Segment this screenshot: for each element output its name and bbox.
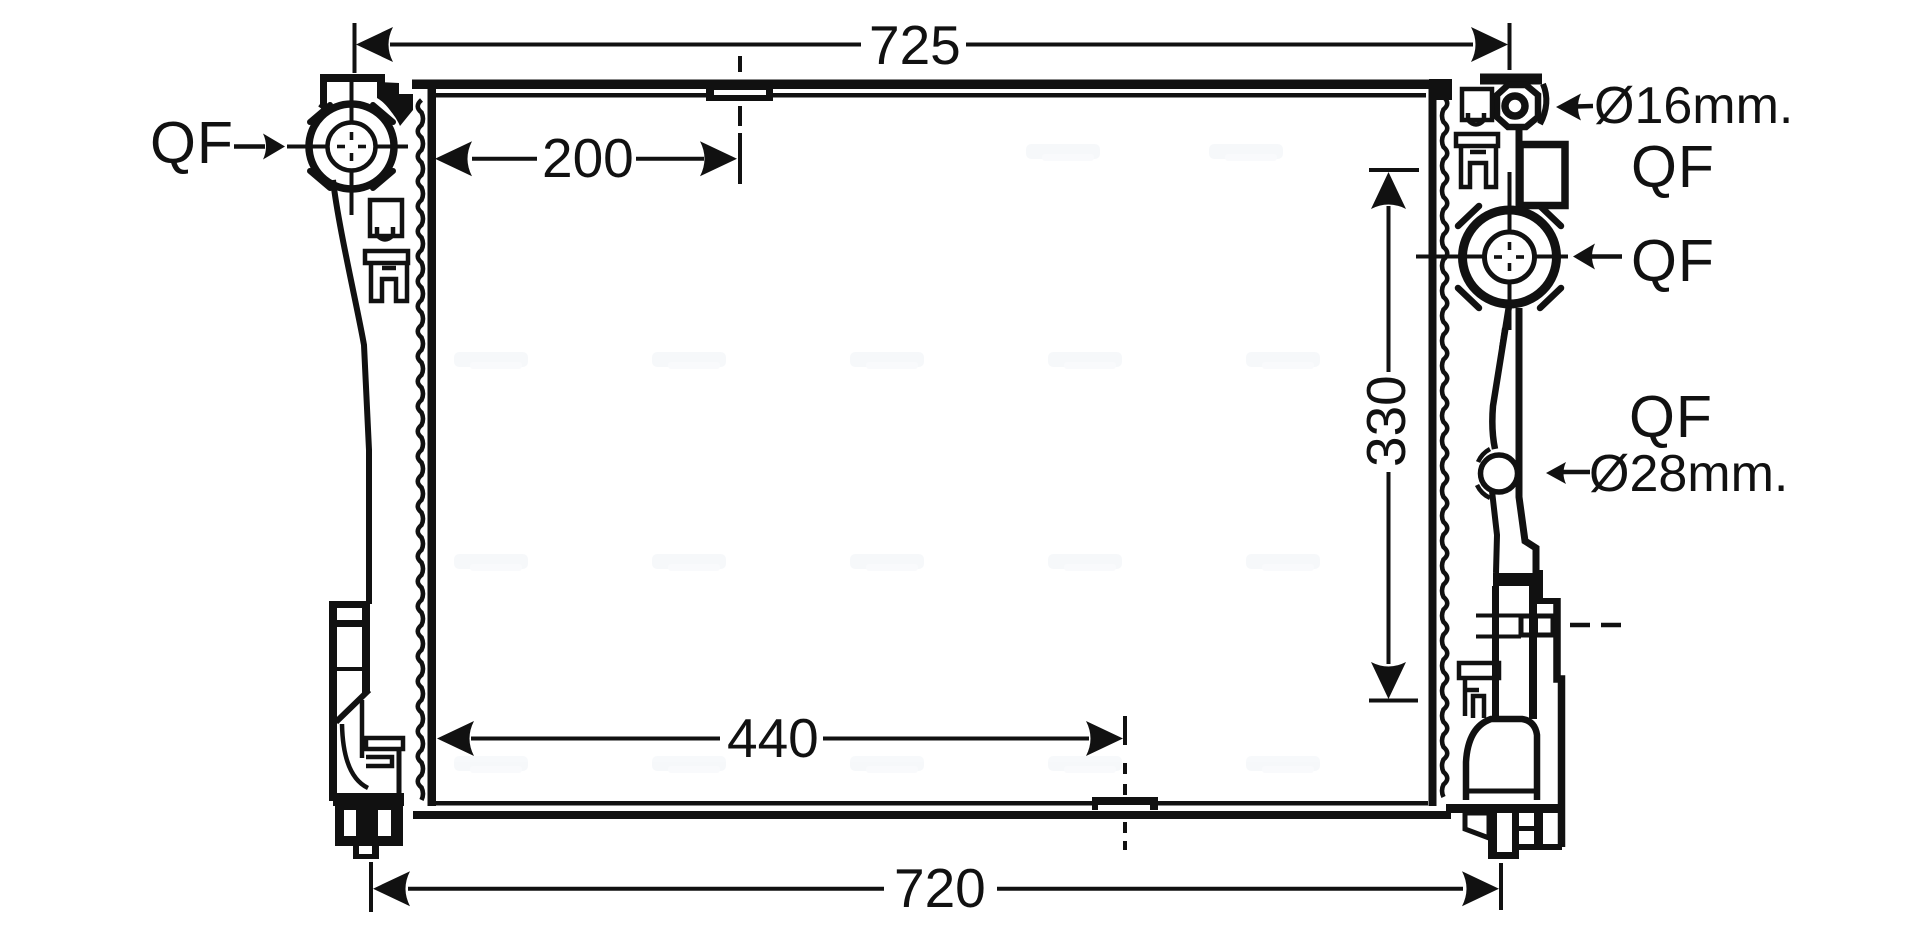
right feet	[1465, 813, 1562, 859]
Ø28 arrow	[1560, 470, 1590, 475]
right pin bracket (bar)	[1456, 134, 1498, 146]
left port chamfer marks	[310, 105, 393, 188]
dashed centerline right of clip	[1570, 623, 1626, 628]
right port center dash cross	[1494, 242, 1524, 271]
svg-text:QF: QF	[1631, 134, 1715, 200]
core bottom edge (thin inner line)	[433, 801, 1428, 806]
svg-text:720: 720	[894, 857, 986, 919]
left feet (slotted block)	[335, 806, 403, 859]
core bottom edge (thick line)	[413, 811, 1451, 819]
right pin bracket (upper box with notch)	[1462, 89, 1492, 125]
right tank neck (diagonal left line)	[1492, 306, 1509, 449]
left foot bracket inner curve	[342, 724, 368, 788]
right tank top bar	[1480, 74, 1542, 85]
right pin bracket (legs)	[1461, 146, 1496, 187]
QF right arrow	[1592, 254, 1622, 259]
svg-text:725: 725	[869, 14, 961, 76]
top mounting tab on top edge	[706, 88, 773, 101]
dimension 720 line	[371, 862, 1501, 912]
left pin bracket (bar)	[365, 251, 408, 263]
left tank corner kink	[320, 104, 331, 112]
right port crosshair	[1416, 172, 1568, 330]
left foot bracket left edge	[329, 601, 337, 801]
right tank top corner block	[1429, 79, 1452, 100]
svg-text:Ø16mm.: Ø16mm.	[1594, 77, 1793, 135]
clip box	[1521, 616, 1553, 635]
left inlet port flange (octagon ring)	[309, 104, 394, 189]
right bolt ring Ø16	[1505, 96, 1525, 116]
svg-text:200: 200	[542, 127, 634, 189]
dimension 440 extension line	[1123, 716, 1127, 850]
dimension 200 extension line (dashed)	[738, 56, 742, 184]
left tank wall (sloped)	[333, 180, 369, 604]
svg-text:330: 330	[1355, 375, 1417, 467]
dimension 725 line	[355, 23, 1510, 73]
dome inner line	[1469, 789, 1536, 794]
left port crosshair	[287, 75, 408, 215]
left tank top corner bar	[320, 74, 385, 105]
white separation arc	[364, 98, 400, 134]
svg-text:QF: QF	[1631, 228, 1715, 294]
dimension 330 line	[1369, 170, 1419, 701]
left foot bracket diagonal brace	[336, 690, 369, 722]
left pin bracket (upper box with notch)	[370, 200, 402, 240]
dimension 200 line	[472, 157, 704, 161]
right tank serrated edge	[1442, 97, 1447, 797]
right tank neck (right line)	[1519, 308, 1536, 578]
left foot bracket column right edge	[362, 601, 370, 693]
svg-text:QF: QF	[1629, 384, 1713, 450]
right square connector	[1520, 145, 1565, 206]
core left edge line	[428, 85, 437, 806]
Ø16 arrow	[1576, 104, 1593, 109]
left tank serrated edge	[418, 100, 423, 800]
drain port arc marks	[1477, 449, 1490, 498]
right dome mount	[1466, 719, 1537, 800]
outer bracket profile	[1557, 598, 1562, 847]
dimension 440 line	[471, 737, 1089, 741]
right bolt boss (octagon)	[1497, 85, 1538, 127]
left foot plate	[333, 793, 404, 806]
bottom mounting tab on bottom edge	[1092, 797, 1158, 810]
drain port Ø28	[1481, 455, 1518, 492]
QF left arrow	[234, 144, 265, 149]
svg-text:Ø28mm.: Ø28mm.	[1589, 445, 1788, 503]
neck below drain port	[1492, 491, 1497, 573]
right port inner circle	[1485, 232, 1535, 282]
faint background watermarks	[454, 144, 1320, 773]
core top edge (thick line)	[412, 80, 1438, 90]
left pin bracket (legs)	[371, 263, 407, 301]
core right edge line	[1429, 82, 1437, 806]
clip ticks	[1476, 614, 1521, 618]
right bottom plate	[1446, 804, 1562, 813]
right port chamfer marks	[1458, 206, 1561, 308]
left foot bracket step bars	[366, 738, 403, 749]
svg-text:QF: QF	[150, 110, 234, 176]
right pin bracket (lower)	[1459, 663, 1499, 718]
core top edge (thin inner line)	[436, 93, 1426, 98]
left port center dash cross	[337, 132, 366, 161]
left port inner circle	[328, 123, 376, 171]
left foot bracket inner line	[360, 700, 365, 758]
right tank edge above port	[1516, 124, 1523, 211]
right outlet port flange	[1463, 210, 1557, 304]
left foot bracket top flange	[329, 601, 367, 608]
left tank top shelf to core	[377, 82, 413, 126]
svg-text:440: 440	[727, 707, 819, 769]
lower column junction bar	[1493, 573, 1539, 586]
lower column sides	[1492, 586, 1499, 719]
neck weld dash	[1501, 328, 1504, 348]
